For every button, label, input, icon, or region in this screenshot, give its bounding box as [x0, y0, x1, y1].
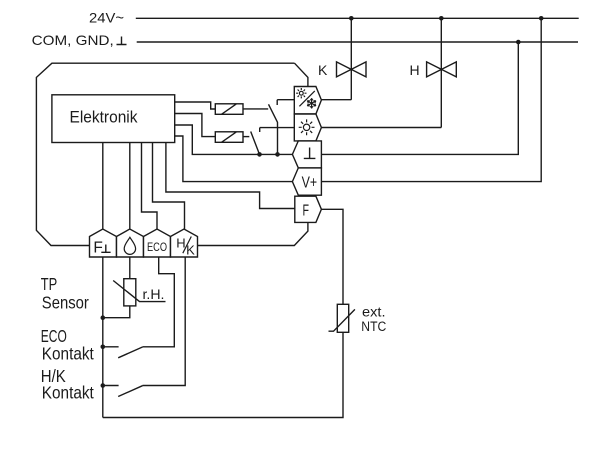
- separator diagonal: [299, 91, 314, 106]
- terminal humidity (droplet): [117, 229, 144, 257]
- Elektronik box: [52, 95, 175, 143]
- wire V+ terminal to 24V~ bus: [321, 18, 541, 181]
- label ECO Kontakt: [41, 326, 94, 364]
- icon droplet: [124, 237, 135, 254]
- wire switch S1 to cool/heat terminal: [277, 99, 294, 101]
- wire ECO Kontakt to ECO terminal: [143, 257, 175, 347]
- icon sun small: [296, 88, 306, 98]
- label ⊥: [304, 148, 316, 159]
- valve K: [337, 62, 367, 77]
- svg-text:NTC: NTC: [361, 319, 386, 334]
- valve H: [427, 62, 457, 77]
- svg-text:r.H.: r.H.: [143, 287, 165, 302]
- wire Elektronik to relay K1: [175, 102, 216, 109]
- wire Elektronik to F terminal: [166, 143, 295, 209]
- wire 24V~ bus: [136, 17, 579, 19]
- sensor ext. NTC: [329, 304, 355, 332]
- wire ⊥ terminal to COM bus: [321, 42, 518, 154]
- svg-text:Kontakt: Kontakt: [42, 344, 94, 364]
- terminal heating (sun): [294, 114, 321, 141]
- wire F terminal to ext. NTC: [321, 209, 343, 304]
- terminal F⊥: [90, 229, 117, 257]
- terminal V+: [292, 168, 321, 195]
- terminal F: [295, 196, 322, 222]
- svg-text:F: F: [303, 203, 310, 220]
- terminal H/K: [171, 229, 198, 257]
- wire 24V~ through valve K to cool/heat terminal: [321, 18, 351, 99]
- relay K1 (solid state): [215, 104, 243, 115]
- wire Elektronik to F⊥ terminal: [102, 143, 104, 230]
- wire Elektronik to H/K terminal: [153, 143, 185, 230]
- svg-text:Elektronik: Elektronik: [70, 108, 139, 126]
- wire Elektronik to humidity terminal: [129, 143, 131, 230]
- junction H/K Kontakt / ground: [101, 383, 106, 388]
- label H/K Kontakt: [41, 366, 94, 402]
- svg-text:ECO: ECO: [147, 240, 167, 254]
- wire Elektronik to relay K2: [175, 114, 216, 137]
- svg-text:ext.: ext.: [362, 304, 386, 319]
- switch S2: [251, 128, 260, 155]
- thermostat device outline: [36, 63, 308, 245]
- wire Elektronik to V+ terminal: [175, 136, 293, 182]
- wire common line to ⊥ terminal: [175, 125, 293, 154]
- svg-text:COM, GND,: COM, GND,: [32, 32, 114, 48]
- wire H/K Kontakt to H/K terminal: [143, 257, 186, 386]
- wire F⊥ terminal / ground bus: [102, 257, 104, 418]
- label F⊥: [93, 239, 110, 256]
- wire relay K2 to switch S2: [243, 136, 249, 138]
- junction ECO Kontakt / ground: [101, 345, 106, 350]
- wire 24V~ through valve H to heating terminal: [321, 18, 441, 127]
- switch S1: [269, 100, 278, 155]
- terminal cool/heat (sun/snow): [294, 87, 321, 115]
- wire switch S2 to heating terminal: [260, 127, 295, 129]
- junction switch S1 / common: [275, 152, 280, 157]
- svg-text:TP: TP: [41, 274, 58, 294]
- label ext. NTC: [361, 304, 386, 334]
- junction COM / ⊥ feed: [516, 40, 521, 45]
- svg-text:Kontakt: Kontakt: [42, 382, 94, 402]
- junction 24V~ / valve H: [439, 16, 444, 21]
- junction 24V~ / V+ feed: [539, 16, 544, 21]
- wire r.H. to ground: [103, 306, 130, 318]
- junction 24V~ / valve K: [349, 16, 354, 21]
- wire ext. NTC to ground bus: [103, 332, 343, 417]
- wire COM/GND bus: [137, 41, 578, 43]
- switch ECO Kontakt: [103, 347, 143, 358]
- junction switch S2 / common: [257, 152, 262, 157]
- svg-text:24V~: 24V~: [89, 10, 124, 26]
- svg-text:H: H: [410, 62, 420, 78]
- wire relay K1 to switch S1: [243, 108, 268, 110]
- svg-text:H: H: [176, 235, 185, 250]
- label TP Sensor: [41, 274, 89, 313]
- svg-text:V+: V+: [302, 174, 318, 191]
- sensor r.H. (humidity): [113, 279, 165, 306]
- net label COM, GND, ⊥: [32, 32, 127, 48]
- svg-text:F: F: [93, 239, 102, 256]
- wire Elektronik to ECO terminal: [142, 143, 158, 230]
- wire humidity terminal to r.H. sensor: [129, 257, 131, 279]
- svg-text:Sensor: Sensor: [42, 293, 89, 313]
- label H/K: [176, 235, 195, 257]
- svg-text:K: K: [318, 62, 328, 78]
- switch H/K Kontakt: [103, 386, 143, 397]
- relay K2 (solid state): [215, 132, 243, 143]
- terminal ECO: [144, 229, 171, 257]
- terminal ⊥: [292, 141, 321, 168]
- icon snowflake: [307, 98, 316, 108]
- icon sun: [299, 119, 315, 135]
- junction r.H. / ground: [101, 315, 106, 320]
